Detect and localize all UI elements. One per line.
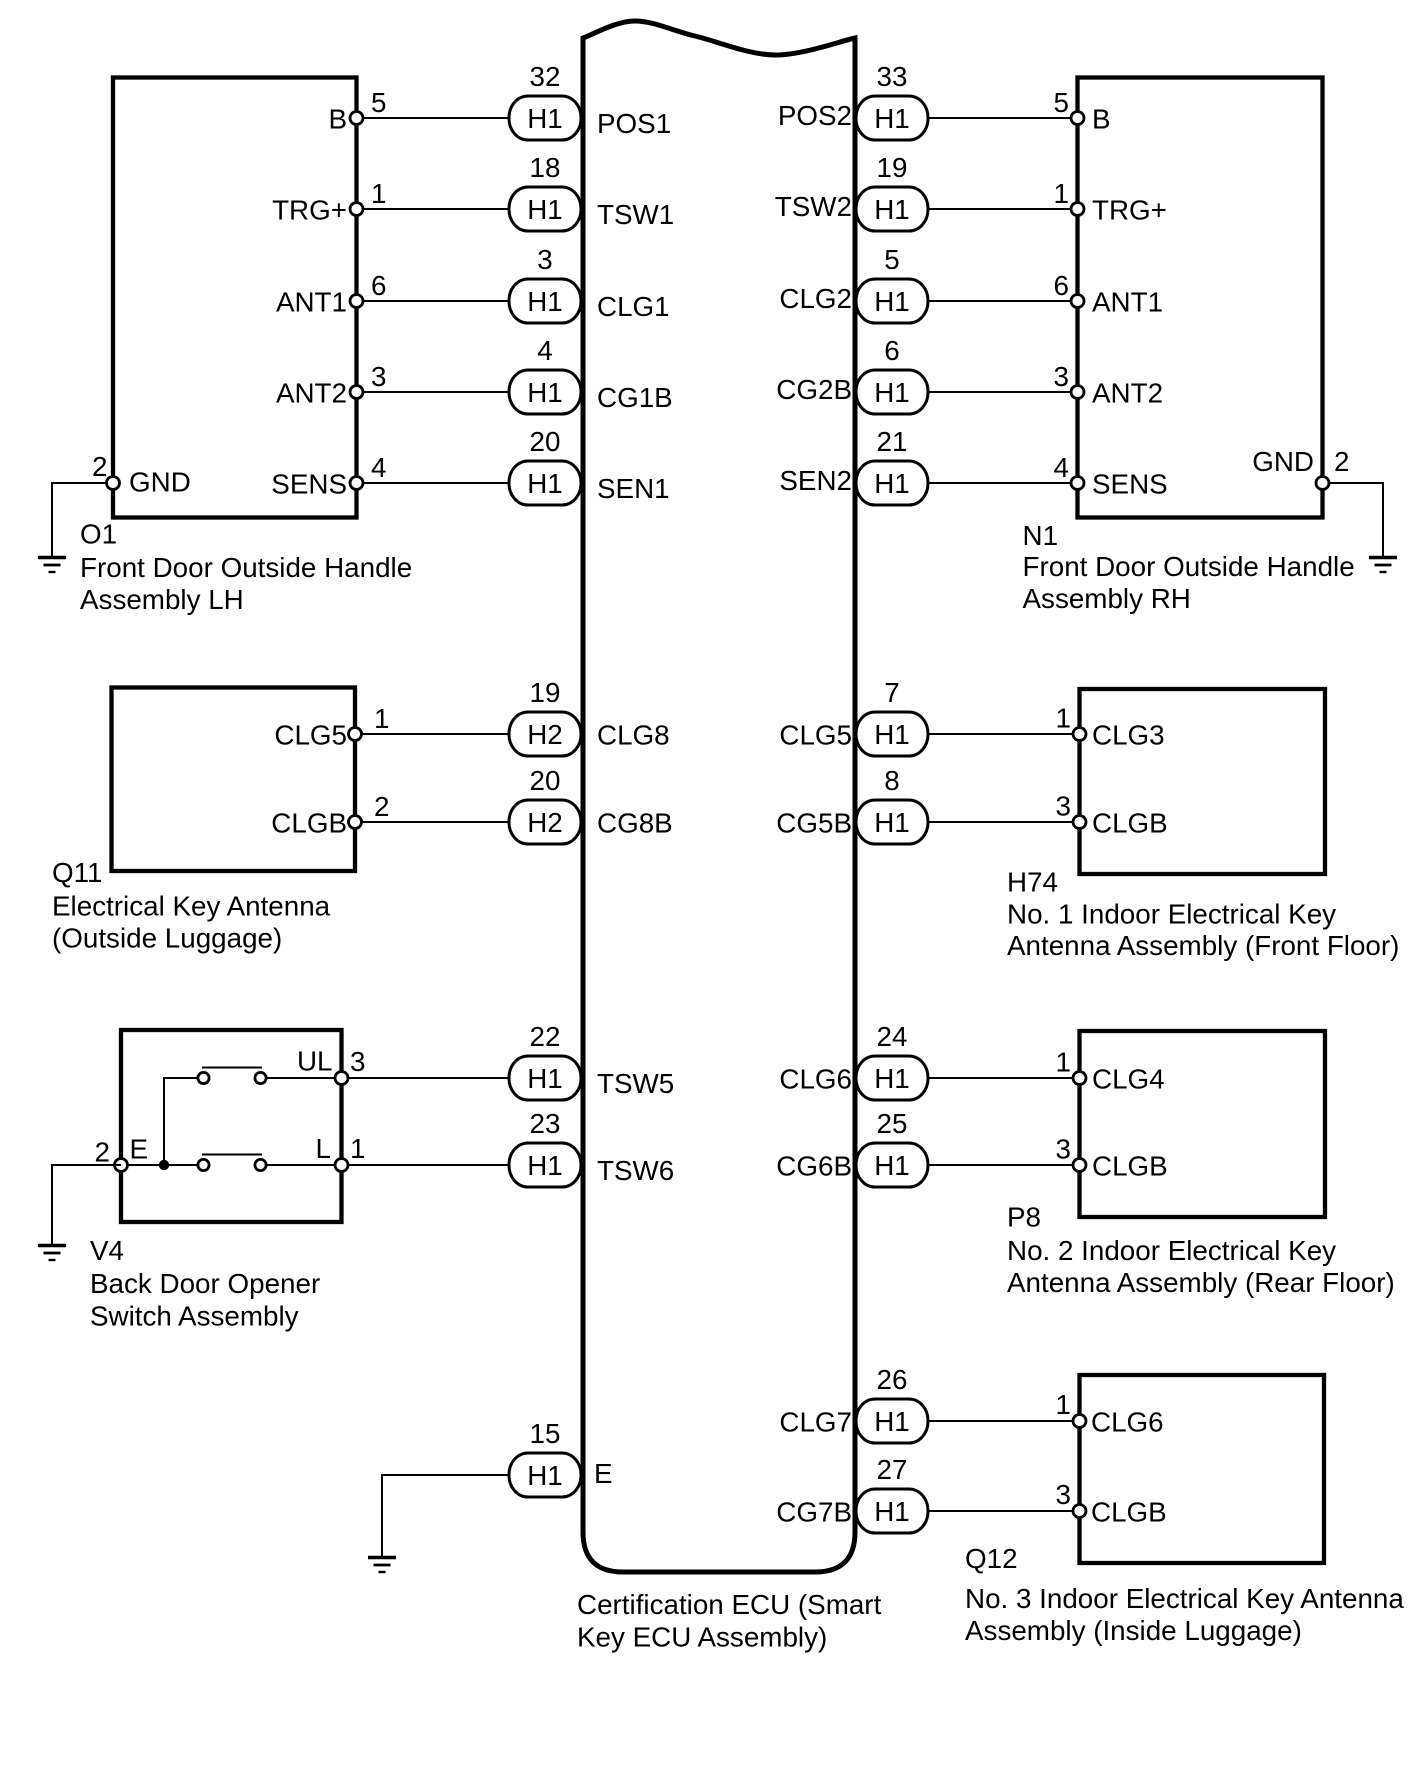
svg-text:CG1B: CG1B (597, 382, 673, 413)
node O1 pin SENS (350, 477, 363, 490)
node V4 pin 1 (L) (335, 1159, 348, 1172)
svg-text:6: 6 (1054, 270, 1069, 301)
node O1 pin TRG+ (350, 203, 363, 216)
svg-text:H74: H74 (1007, 867, 1058, 898)
svg-text:22: 22 (530, 1021, 561, 1052)
svg-text:Electrical Key Antenna: Electrical Key Antenna (52, 891, 331, 922)
svg-text:2: 2 (95, 1137, 110, 1168)
svg-text:1: 1 (371, 178, 386, 209)
svg-text:8: 8 (884, 765, 899, 796)
wire V4 UL to H1 TSW5 (342, 1077, 515, 1079)
svg-text:CLGB: CLGB (271, 808, 347, 839)
svg-text:Front Door Outside Handle: Front Door Outside Handle (80, 552, 412, 583)
svg-text:CLG6: CLG6 (779, 1064, 852, 1095)
svg-text:CLG7: CLG7 (779, 1407, 852, 1438)
svg-text:26: 26 (877, 1364, 908, 1395)
wire V4 E to ground (52, 1165, 121, 1244)
svg-text:25: 25 (877, 1108, 908, 1139)
connector H1 pin 32 (POS1) (509, 96, 581, 140)
wire N1 ANT2 to H1 (923, 391, 1078, 393)
svg-text:TSW2: TSW2 (775, 191, 852, 222)
svg-text:4: 4 (371, 452, 386, 483)
svg-text:2: 2 (1334, 446, 1349, 477)
node P8 pin CLGB (1073, 1159, 1086, 1172)
svg-text:H1: H1 (527, 194, 563, 225)
svg-text:23: 23 (530, 1108, 561, 1139)
svg-text:Back Door Opener: Back Door Opener (90, 1268, 320, 1299)
wire O1 ANT2 to H1 (357, 391, 515, 393)
svg-text:H1: H1 (874, 807, 910, 838)
svg-text:5: 5 (884, 244, 899, 275)
connector H1 pin 26 (CLG7) (856, 1399, 928, 1443)
svg-text:ANT1: ANT1 (1092, 287, 1163, 318)
wire O1 TRG+ to H1 (357, 208, 515, 210)
svg-text:3: 3 (371, 361, 386, 392)
node N1 pin ANT1 (1071, 295, 1084, 308)
connector H1 pin 21 (SEN2) (856, 461, 928, 505)
svg-text:24: 24 (877, 1021, 908, 1052)
wire Q12 CLG6 to H1 (923, 1420, 1080, 1422)
svg-text:1: 1 (1056, 1389, 1071, 1420)
box V4 Back Door Opener Switch Assembly (121, 1030, 342, 1222)
svg-text:CLG1: CLG1 (597, 291, 670, 322)
svg-text:CLG8: CLG8 (597, 720, 670, 751)
box Q11 Electrical Key Antenna (Outside Luggage) (112, 688, 356, 872)
svg-text:ANT2: ANT2 (1092, 378, 1163, 409)
svg-text:CLG5: CLG5 (274, 720, 347, 751)
svg-text:H1: H1 (874, 103, 910, 134)
svg-text:CG5B: CG5B (776, 808, 852, 839)
svg-text:Certification ECU (Smart: Certification ECU (Smart (577, 1589, 882, 1620)
svg-text:Switch Assembly: Switch Assembly (90, 1301, 299, 1332)
svg-text:SENS: SENS (271, 469, 347, 500)
connector H2 pin 19 (CLG8) (509, 712, 581, 756)
connector H1 pin 5 (CLG2) (856, 279, 928, 323)
svg-text:CLGB: CLGB (1092, 1151, 1168, 1182)
node O1 pin ANT2 (350, 386, 363, 399)
svg-text:27: 27 (877, 1454, 908, 1485)
svg-text:SEN2: SEN2 (779, 465, 852, 496)
node P8 pin CLG4 (1073, 1072, 1086, 1085)
node V4 pin 3 (UL) (335, 1072, 348, 1085)
ground (O1) (38, 556, 66, 559)
svg-text:3: 3 (1056, 791, 1071, 822)
box P8 No.2 Indoor Electrical Key Antenna (1080, 1031, 1326, 1217)
connector H1 pin 8 (CG5B) (856, 800, 928, 844)
svg-text:21: 21 (877, 426, 908, 457)
node N1 pin SENS (1071, 477, 1084, 490)
svg-text:Antenna Assembly (Front Floor): Antenna Assembly (Front Floor) (1007, 930, 1399, 961)
svg-text:No. 1 Indoor Electrical Key: No. 1 Indoor Electrical Key (1007, 899, 1336, 930)
svg-text:ANT1: ANT1 (276, 287, 347, 318)
svg-text:E: E (594, 1458, 613, 1489)
node Q12 pin CLG6 (1073, 1415, 1086, 1428)
wire V4 internal branch vertical (164, 1078, 200, 1165)
svg-text:CLG3: CLG3 (1092, 720, 1165, 751)
wire Q11 CLG5 to H2 (355, 733, 514, 735)
svg-text:Key ECU Assembly): Key ECU Assembly) (577, 1622, 827, 1653)
svg-text:TSW6: TSW6 (597, 1155, 674, 1186)
svg-text:15: 15 (530, 1418, 561, 1449)
node O1 GND pin (107, 477, 120, 490)
wire O1 ANT1 to H1 (357, 300, 515, 302)
svg-text:CG7B: CG7B (776, 1497, 852, 1528)
svg-text:3: 3 (350, 1046, 365, 1077)
wire N1 TRG+ to H1 (923, 208, 1078, 210)
connector H1 pin 33 (POS2) (856, 96, 928, 140)
wire H74 CLGB to H1 (923, 821, 1080, 823)
svg-text:1: 1 (350, 1133, 365, 1164)
wire N1 ANT1 to H1 (923, 300, 1078, 302)
svg-text:2: 2 (92, 451, 107, 482)
svg-text:N1: N1 (1023, 520, 1059, 551)
wire O1 SENS to H1 (357, 482, 515, 484)
node H74 pin CLG3 (1073, 728, 1086, 741)
connector H2 pin 20 (CG8B) (509, 800, 581, 844)
wire P8 CLGB to H1 (923, 1164, 1080, 1166)
svg-text:H1: H1 (874, 1150, 910, 1181)
svg-text:4: 4 (537, 335, 552, 366)
wire H74 CLG3 to H1 (923, 733, 1080, 735)
connector H1 pin 7 (CLG5) (856, 712, 928, 756)
switch blade upper (unlock) (202, 1067, 262, 1069)
svg-text:3: 3 (1056, 1134, 1071, 1165)
switch contact upper right (255, 1072, 266, 1083)
svg-text:1: 1 (1056, 703, 1071, 734)
wire O1 B to H1 (357, 117, 515, 119)
svg-text:P8: P8 (1007, 1202, 1041, 1233)
svg-text:H1: H1 (874, 377, 910, 408)
svg-text:6: 6 (371, 270, 386, 301)
svg-text:20: 20 (530, 426, 561, 457)
switch contact lower left (198, 1159, 209, 1170)
node O1 pin B (350, 112, 363, 125)
wire P8 CLG4 to H1 (923, 1077, 1080, 1079)
wire N1 GND to ground (1323, 483, 1384, 556)
node H74 pin CLGB (1073, 816, 1086, 829)
svg-text:UL: UL (297, 1046, 333, 1077)
svg-text:Front Door Outside Handle: Front Door Outside Handle (1023, 551, 1355, 582)
svg-text:18: 18 (530, 152, 561, 183)
svg-text:H1: H1 (527, 1150, 563, 1181)
connector H1 pin 22 (TSW5) (509, 1056, 581, 1100)
svg-text:CLG5: CLG5 (779, 720, 852, 751)
wire H1 E to ground (382, 1475, 514, 1556)
svg-text:H1: H1 (527, 103, 563, 134)
svg-text:No. 3 Indoor Electrical Key An: No. 3 Indoor Electrical Key Antenna (965, 1583, 1404, 1614)
wire V4 internal switch to L pin (264, 1164, 342, 1166)
svg-text:CG6B: CG6B (776, 1151, 852, 1182)
svg-text:TSW1: TSW1 (597, 199, 674, 230)
svg-text:H1: H1 (874, 468, 910, 499)
connector H1 pin 6 (CG2B) (856, 370, 928, 414)
svg-text:TSW5: TSW5 (597, 1068, 674, 1099)
svg-text:CLG4: CLG4 (1092, 1064, 1165, 1095)
switch contact upper left (198, 1072, 209, 1083)
op-amp U1 : Certification ECU (Smart Key ECU Assembly) body (583, 21, 855, 1572)
ground (V4) (38, 1244, 66, 1247)
svg-text:Assembly RH: Assembly RH (1023, 583, 1191, 614)
svg-text:H1: H1 (527, 286, 563, 317)
ground (ECU E) (368, 1556, 396, 1559)
svg-text:H1: H1 (874, 286, 910, 317)
svg-text:No. 2 Indoor Electrical Key: No. 2 Indoor Electrical Key (1007, 1235, 1336, 1266)
svg-text:POS2: POS2 (778, 100, 852, 131)
connector H1 pin 24 (CLG6) (856, 1056, 928, 1100)
node N1 pin ANT2 (1071, 386, 1084, 399)
svg-text:Q11: Q11 (52, 857, 102, 888)
svg-text:SENS: SENS (1092, 469, 1168, 500)
svg-text:H1: H1 (527, 468, 563, 499)
svg-text:7: 7 (884, 677, 899, 708)
svg-text:CG8B: CG8B (597, 808, 673, 839)
wire V4 internal E to switch (121, 1164, 200, 1166)
svg-text:19: 19 (530, 677, 561, 708)
svg-text:Assembly (Inside Luggage): Assembly (Inside Luggage) (965, 1615, 1302, 1646)
wire Q11 CLGB to H2 (355, 821, 514, 823)
wire Q12 CLGB to H1 (923, 1510, 1080, 1512)
ground (N1) (1369, 556, 1397, 559)
svg-text:CLGB: CLGB (1091, 1497, 1167, 1528)
connector H1 pin 15 (E) (509, 1453, 581, 1497)
svg-text:H1: H1 (527, 377, 563, 408)
svg-text:6: 6 (884, 335, 899, 366)
svg-text:33: 33 (877, 61, 908, 92)
svg-text:GND: GND (1252, 446, 1314, 477)
connector H1 pin 27 (CG7B) (856, 1489, 928, 1533)
svg-text:B: B (328, 104, 347, 135)
svg-text:1: 1 (1056, 1047, 1071, 1078)
svg-text:H2: H2 (527, 807, 563, 838)
svg-text:O1: O1 (80, 519, 117, 550)
switch contact lower right (255, 1159, 266, 1170)
svg-text:H1: H1 (874, 1063, 910, 1094)
node O1 pin ANT1 (350, 295, 363, 308)
svg-text:TRG+: TRG+ (272, 195, 347, 226)
wire N1 SENS to H1 (923, 482, 1078, 484)
svg-text:20: 20 (530, 765, 561, 796)
svg-text:2: 2 (374, 791, 389, 822)
svg-text:GND: GND (129, 467, 191, 498)
svg-text:CLG6: CLG6 (1091, 1407, 1164, 1438)
node N1 pin B (1071, 112, 1084, 125)
connector H1 pin 4 (CG1B) (509, 370, 581, 414)
svg-text:H1: H1 (874, 719, 910, 750)
box Q12 No.3 Indoor Electrical Key Antenna (1080, 1375, 1325, 1563)
connector H1 pin 19 (TSW2) (856, 187, 928, 231)
node junction (V4 E branch) (159, 1160, 169, 1170)
node Q11 pin CLGB (349, 816, 362, 829)
svg-text:4: 4 (1054, 452, 1069, 483)
svg-text:H1: H1 (527, 1063, 563, 1094)
node V4 pin 2 (E) (115, 1159, 128, 1172)
svg-text:5: 5 (371, 87, 386, 118)
svg-text:CG2B: CG2B (776, 374, 852, 405)
svg-text:L: L (316, 1133, 331, 1164)
svg-text:H1: H1 (874, 194, 910, 225)
svg-text:1: 1 (1054, 178, 1069, 209)
svg-text:V4: V4 (90, 1235, 124, 1266)
connector H1 pin 25 (CG6B) (856, 1143, 928, 1187)
connector H1 pin 18 (TSW1) (509, 187, 581, 231)
svg-text:TRG+: TRG+ (1092, 195, 1167, 226)
wire O1 GND to ground (52, 483, 113, 556)
svg-text:ANT2: ANT2 (276, 378, 347, 409)
svg-text:H1: H1 (527, 1460, 563, 1491)
svg-text:32: 32 (530, 61, 561, 92)
svg-text:1: 1 (374, 703, 389, 734)
svg-text:H1: H1 (874, 1406, 910, 1437)
svg-text:Assembly LH: Assembly LH (80, 584, 244, 615)
svg-text:H2: H2 (527, 719, 563, 750)
svg-text:CLGB: CLGB (1092, 808, 1168, 839)
svg-text:3: 3 (1054, 361, 1069, 392)
svg-text:SEN1: SEN1 (597, 473, 670, 504)
node N1 pin TRG+ (1071, 203, 1084, 216)
svg-text:5: 5 (1054, 87, 1069, 118)
switch blade lower (lock) (202, 1154, 262, 1156)
node N1 GND pin (1316, 477, 1329, 490)
svg-text:CLG2: CLG2 (779, 283, 852, 314)
svg-text:POS1: POS1 (597, 108, 671, 139)
svg-text:Q12: Q12 (965, 1543, 1018, 1574)
box N1 Front Door Outside Handle Assembly RH (1078, 78, 1323, 518)
svg-text:E: E (130, 1134, 149, 1165)
connector H1 pin 23 (TSW6) (509, 1143, 581, 1187)
box H74 No.1 Indoor Electrical Key Antenna (1080, 689, 1326, 874)
svg-text:3: 3 (1056, 1479, 1071, 1510)
connector H1 pin 3 (CLG1) (509, 279, 581, 323)
svg-text:(Outside Luggage): (Outside Luggage) (52, 923, 282, 954)
wire V4 internal switch to UL pin (264, 1077, 342, 1079)
wire N1 B to H1 (923, 117, 1078, 119)
box O1 Front Door Outside Handle Assembly LH (113, 78, 357, 518)
svg-text:Antenna Assembly (Rear Floor): Antenna Assembly (Rear Floor) (1007, 1267, 1395, 1298)
svg-text:H1: H1 (874, 1496, 910, 1527)
connector H1 pin 20 (SEN1) (509, 461, 581, 505)
node Q12 pin CLGB (1073, 1505, 1086, 1518)
node Q11 pin CLG5 (349, 728, 362, 741)
svg-text:3: 3 (537, 244, 552, 275)
svg-text:B: B (1092, 104, 1111, 135)
svg-text:19: 19 (877, 152, 908, 183)
wire V4 L to H1 TSW6 (342, 1164, 515, 1166)
